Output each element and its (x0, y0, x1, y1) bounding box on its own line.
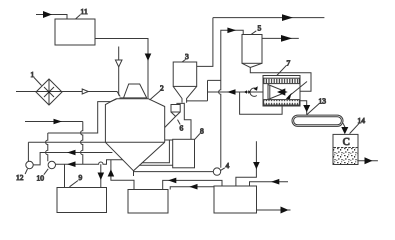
feeder 6 (171, 105, 180, 113)
wire hopper 3 vent riser (197, 18, 213, 67)
svg-text:4: 4 (226, 161, 230, 170)
belt 7 triangle (268, 85, 287, 100)
shuttle arrows (double-headed) (244, 91, 251, 93)
wire circle10 riser with hops (46, 133, 48, 161)
svg-text:7: 7 (287, 59, 291, 68)
wire fines return line to chamber (48, 99, 117, 133)
label 13 (307, 97, 326, 115)
heater box 11 (55, 19, 95, 45)
arrowhead right on gas outlet (281, 35, 292, 42)
arrowhead exhaust right (282, 14, 293, 21)
svg-text:13: 13 (319, 97, 327, 106)
wire drop to box 9 with down arrow (100, 164, 102, 187)
pump 10 (48, 161, 55, 168)
label 14 (350, 116, 366, 134)
conveyor 13 outer (292, 115, 343, 126)
wire bin 14 output (358, 160, 378, 162)
arrowhead right cyclone inlet (227, 28, 236, 34)
arrowhead left on upper line (168, 178, 176, 184)
arrowhead down into conveyor (303, 105, 310, 112)
arrowhead down on stub (253, 162, 260, 169)
open triangle feed arrow (115, 60, 122, 67)
wire circle10 line to cone left slope (56, 160, 123, 164)
conveyor 13 inner (294, 117, 342, 125)
product bin 14 (333, 134, 358, 164)
open flow arrow on air line (82, 89, 88, 94)
wire tank to mixer upper line (163, 180, 222, 189)
cyclone 5 funnel (242, 63, 262, 67)
wire box7 return line to riser (187, 80, 263, 101)
wire tank to mixer lower line (170, 187, 214, 190)
wire cone outlet line to circle12 step (33, 153, 112, 165)
wire T-drop under shuttle symbol (240, 92, 283, 114)
belt 7 inner arrow left (277, 88, 285, 95)
label 8 (195, 127, 204, 140)
label 11 (76, 7, 88, 19)
spray dryer 2 : body (105, 99, 164, 143)
arrowhead left on lower line (189, 184, 197, 190)
svg-text:9: 9 (79, 173, 83, 182)
wire inlet arrow to heater 11 (36, 15, 67, 20)
wire circle12 riser (27, 142, 29, 161)
arrowhead right tank output (281, 207, 289, 214)
wire vertical with hops x=82.8 (81, 122, 83, 165)
wire recycle inlet arrow (left) (25, 121, 83, 123)
wire right inlet stub to tank (250, 182, 289, 186)
wire diagonal feed into belt 7 (289, 82, 308, 97)
feeder 6 funnel (171, 112, 180, 116)
arrowhead right bin output (365, 157, 373, 164)
cyclone 5 (242, 35, 262, 64)
belt 7 top hatched band (264, 78, 300, 83)
wire hopper neck to feeder 6 and box 8 (176, 103, 191, 140)
wire conveyor to bin 14 (343, 123, 345, 128)
label 5 (251, 24, 262, 35)
svg-text:11: 11 (81, 7, 88, 16)
rotation arrow (250, 88, 257, 96)
spray dryer 2 : atomizer hat (120, 84, 148, 98)
label 2 (150, 84, 164, 101)
pump 4 (213, 168, 220, 175)
filter 1 internals (44, 79, 54, 105)
tank box (bottom right) (214, 186, 257, 213)
arrowhead left on right inlet (271, 179, 279, 185)
belt dryer 7 (263, 76, 300, 107)
wire belt 7 discharge to conveyor 13 (300, 101, 307, 115)
wire drop to box 9 left (64, 164, 66, 187)
arrowhead inlet 11 (43, 11, 52, 18)
wire heater 11 to dryer hot air duct (95, 39, 148, 99)
wire cyclone gas outlet (262, 37, 299, 39)
filter/fan 1 diamond (36, 79, 62, 105)
wire pump 4 riser to cyclone inlet (hop at y=92) (219, 30, 244, 168)
wire cone to box8 lower (139, 164, 173, 166)
feed stub into atomizer (118, 47, 120, 96)
arrowhead right on recycle inlet (54, 119, 63, 125)
box 8 (173, 139, 195, 168)
wire tank output (257, 209, 291, 211)
wire input stub with down arrow to tank (236, 141, 257, 186)
svg-text:5: 5 (258, 24, 262, 33)
label 7 (277, 59, 291, 76)
pump 12 (26, 161, 33, 168)
wire circle12 top line to dryer wall (28, 141, 105, 143)
wire dryer wall to box 8 (165, 139, 173, 141)
label 6 (178, 120, 184, 133)
box 9 (57, 188, 107, 213)
air line from left through filter 1 (16, 92, 120, 97)
label 12 (16, 169, 28, 182)
arrowhead left on cone outlet (67, 150, 76, 156)
arrowhead up on recycle (108, 169, 115, 176)
wire up-arrow line from mixer box (111, 160, 134, 190)
feeder 6 chute into dryer (165, 116, 176, 127)
svg-text:C: C (343, 137, 350, 148)
arrowhead left on box7 return (227, 89, 236, 95)
svg-text:6: 6 (180, 124, 184, 133)
wire box8 side duct to cone (142, 140, 170, 163)
arrowhead hot air down (145, 54, 152, 62)
svg-text:8: 8 (200, 127, 204, 136)
belt 7 bottom hatched band (264, 100, 300, 105)
label 9 (70, 173, 83, 187)
wire cone tip to pump 4 (134, 171, 213, 173)
arrowhead down into box 9 (98, 173, 105, 181)
label 10 (37, 169, 49, 183)
svg-text:2: 2 (160, 84, 164, 93)
wire top exhaust line (213, 17, 325, 19)
svg-text:12: 12 (16, 173, 24, 182)
label 4 (221, 161, 230, 170)
mixer box (bottom middle) (128, 190, 168, 214)
svg-text:10: 10 (37, 174, 45, 183)
bin 14 product fill (334, 148, 358, 165)
feed hopper 3 (173, 62, 197, 86)
arrowhead left on circle10 line (67, 161, 76, 167)
hopper 3 funnel (173, 86, 197, 102)
cone tip stub (133, 171, 135, 176)
spray dryer 2 : cone (105, 142, 164, 171)
label 3 (182, 52, 189, 62)
arrowhead down into bin 14 (341, 127, 348, 134)
label 1 (31, 70, 42, 86)
wire cyclone solids to belt 7 right side (250, 68, 311, 92)
